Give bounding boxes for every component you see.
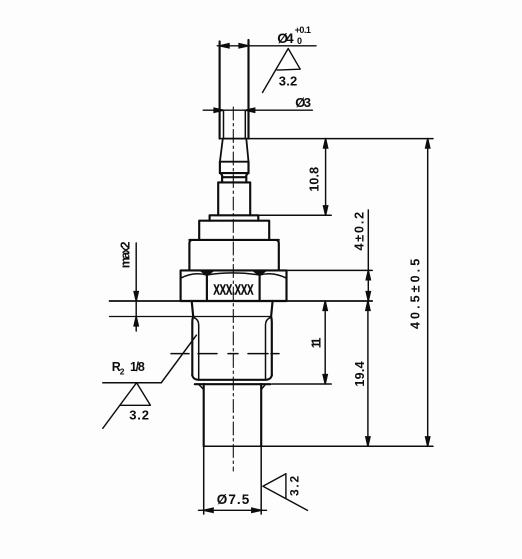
hex facet line left: [206, 273, 208, 302]
foot washer: [210, 215, 259, 220]
hex chamfer arc left: [181, 274, 207, 278]
svg-text:11: 11: [310, 338, 324, 349]
svg-text:0: 0: [297, 36, 302, 46]
svg-text:10.8: 10.8: [308, 167, 322, 192]
label Ø4 +0.1/0: [277, 25, 311, 46]
surface finish symbol bottom right: [263, 474, 308, 511]
centerline vertical axis: [232, 107, 234, 471]
thread top line: [110, 316, 272, 318]
svg-text:3.2: 3.2: [129, 408, 149, 423]
svg-text:XXX.XXX: XXX.XXX: [213, 281, 253, 298]
extension line hex bottom right: [287, 300, 373, 302]
hex wedge left: [201, 272, 213, 276]
dim Ø7.5 extension lines: [204, 446, 262, 514]
surface finish symbol R2: [103, 383, 151, 429]
dim 19.4 vertical line: [366, 301, 370, 446]
thread shank taper: [192, 301, 273, 317]
thread outer left: [191, 317, 194, 376]
hex chamfer arc right: [260, 274, 287, 278]
thread bottom run-out line: [192, 376, 271, 380]
step block 2: [189, 240, 278, 271]
extension line hex bottom left: [110, 300, 181, 302]
R2 leader underline: [103, 382, 162, 384]
extension line hex top right: [287, 269, 373, 271]
thread root right: [266, 318, 271, 380]
extension line thread bottom right: [272, 383, 331, 385]
svg-text:3.2: 3.2: [287, 475, 301, 496]
dim Ø4 dimension line: [217, 44, 316, 48]
thread bottom line: [195, 383, 270, 385]
dim 10.8 vertical line: [324, 139, 328, 216]
extension line foot top right: [258, 214, 331, 216]
svg-text:2: 2: [120, 366, 125, 376]
body cylinder: [218, 182, 250, 215]
hex chamfer arc center: [207, 273, 260, 275]
probe top chamfer left: [199, 384, 204, 389]
dim max2 vertical line: [134, 243, 138, 331]
svg-text:Ø4: Ø4: [277, 30, 294, 46]
dim 40.5±0.5 vertical line: [426, 139, 430, 447]
svg-text:max2: max2: [119, 242, 133, 269]
dim Ø7.5 dimension line: [199, 508, 267, 512]
svg-text:4±0.2: 4±0.2: [353, 212, 367, 251]
surface finish symbol top: [263, 49, 301, 93]
hex facet line right: [259, 273, 261, 302]
neck groove 2: [222, 177, 246, 182]
pin outer Ø4 left line: [219, 42, 221, 139]
extension line cone top: [220, 138, 433, 140]
dim 4±0.2 vertical line: [366, 210, 370, 310]
dim Ø3 dimension line: [203, 108, 312, 112]
thread outer right: [270, 317, 273, 376]
pin inner Ø3 left line: [223, 110, 225, 138]
neck groove: [220, 173, 249, 177]
collar band: [220, 162, 249, 173]
thread root left: [194, 318, 199, 380]
svg-text:Ø7.5: Ø7.5: [217, 492, 250, 507]
label R2 1/8: [112, 360, 145, 376]
thread engagement dash line: [171, 353, 279, 355]
probe body: [204, 384, 262, 446]
svg-text:+0.1: +0.1: [295, 25, 311, 35]
svg-text:1/8: 1/8: [130, 360, 145, 374]
dim 11 vertical line: [323, 301, 327, 384]
pin outer Ø4 right line: [247, 40, 249, 139]
hex wedge right: [254, 272, 266, 276]
svg-text:19.4: 19.4: [353, 361, 367, 386]
step block 1: [199, 221, 269, 240]
hex nut outline: [181, 270, 287, 301]
probe bottom line with extension: [204, 445, 433, 447]
pin inner Ø3 right line: [244, 110, 246, 138]
cone tip: [220, 139, 249, 162]
svg-text:3.2: 3.2: [279, 74, 297, 89]
svg-text:Ø3: Ø3: [295, 95, 311, 110]
R2 leader line: [161, 335, 196, 383]
probe top chamfer right: [261, 384, 265, 389]
